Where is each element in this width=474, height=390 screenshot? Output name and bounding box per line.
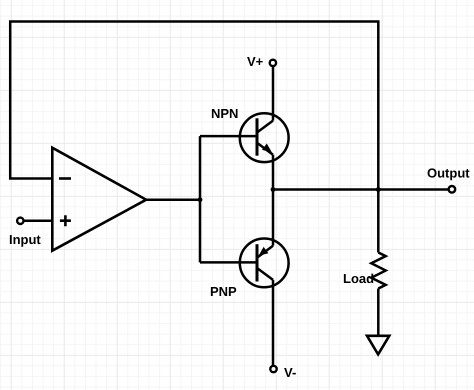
node junction op-amp output	[198, 197, 203, 202]
op-amp U1	[52, 148, 146, 251]
transistor PNP	[240, 239, 289, 288]
wire PNP emitter to output rail	[272, 190, 275, 246]
output terminal	[449, 186, 456, 193]
svg-text:NPN: NPN	[211, 106, 238, 121]
node junction emitters/output	[271, 187, 276, 192]
wire NPN emitter to output rail	[272, 155, 275, 190]
wire input to op-amp non-inverting input	[24, 220, 52, 223]
node junction load/feedback	[376, 187, 381, 192]
svg-text:Output: Output	[427, 166, 470, 181]
svg-text:PNP: PNP	[210, 284, 237, 299]
wire PNP collector to V-	[272, 280, 275, 366]
V- terminal	[270, 366, 276, 372]
wire PNP base	[200, 261, 257, 264]
resistor Load	[371, 253, 385, 289]
wire output rail	[273, 188, 449, 191]
V+ terminal	[270, 60, 276, 66]
wire load top	[377, 190, 380, 253]
svg-text:Load: Load	[343, 271, 374, 286]
svg-text:V+: V+	[247, 54, 264, 69]
wire load bottom	[377, 289, 380, 336]
wire feedback loop (op-amp inverting input to output node)	[10, 22, 378, 190]
transistor NPN	[240, 113, 289, 162]
svg-text:Input: Input	[9, 232, 41, 247]
svg-text:V-: V-	[284, 365, 296, 380]
wire base bus vertical	[199, 136, 202, 262]
input terminal	[17, 218, 23, 224]
ground	[367, 336, 389, 355]
wire NPN base	[200, 135, 257, 138]
wire NPN collector to V+	[272, 66, 275, 120]
wire op-amp output	[146, 198, 200, 201]
